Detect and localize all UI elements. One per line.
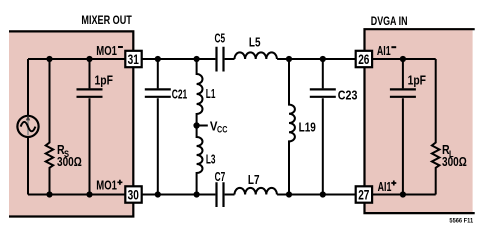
svg-text:L1: L1 bbox=[206, 86, 216, 101]
inductor L7 bbox=[235, 188, 277, 195]
pin label AI1- bbox=[377, 43, 396, 58]
svg-text:L3: L3 bbox=[206, 151, 216, 166]
svg-text:L7: L7 bbox=[248, 172, 260, 187]
svg-text:1pF: 1pF bbox=[408, 73, 426, 88]
inductor L5 bbox=[235, 52, 277, 59]
capacitor 1pF (left) bbox=[77, 59, 103, 195]
svg-text:MO1: MO1 bbox=[96, 177, 117, 192]
svg-text:30: 30 bbox=[128, 188, 139, 204]
svg-text:AI1: AI1 bbox=[377, 43, 391, 58]
node junction dots top rail bbox=[46, 56, 406, 62]
wire left box top rail bbox=[28, 58, 125, 60]
resistor RS bbox=[46, 59, 54, 195]
svg-text:L19: L19 bbox=[299, 120, 316, 135]
svg-text:C7: C7 bbox=[215, 169, 226, 184]
svg-text:31: 31 bbox=[128, 52, 139, 68]
node VCC bbox=[193, 118, 227, 135]
pin 30 bbox=[125, 186, 141, 203]
wire bottom rail (middle) bbox=[142, 194, 356, 196]
svg-text:300Ω: 300Ω bbox=[57, 154, 82, 169]
svg-text:MO1: MO1 bbox=[96, 43, 117, 58]
IC block MIXER OUT (left pink box) bbox=[9, 30, 134, 217]
inductor L19 bbox=[289, 59, 295, 195]
svg-text:1pF: 1pF bbox=[95, 72, 113, 87]
capacitor C7 bbox=[217, 182, 224, 207]
inductor L1 bbox=[197, 59, 203, 126]
svg-text:MIXER OUT: MIXER OUT bbox=[81, 13, 132, 27]
svg-text:300Ω: 300Ω bbox=[442, 154, 467, 169]
svg-text:27: 27 bbox=[358, 188, 369, 204]
pin label AI1+ bbox=[378, 179, 397, 194]
node junction dots bottom rail bbox=[46, 191, 406, 197]
wire left box left vertical bbox=[27, 59, 29, 195]
wire right box bottom rail bbox=[372, 194, 436, 196]
resistor RL bbox=[432, 59, 440, 195]
pin label MO1- bbox=[96, 43, 123, 58]
IC block DVGA IN (right pink box) bbox=[363, 28, 474, 214]
pin 27 bbox=[356, 186, 372, 203]
svg-text:C21: C21 bbox=[172, 86, 188, 101]
label RL bbox=[442, 142, 454, 160]
pin 26 bbox=[356, 51, 372, 68]
capacitor C5 bbox=[217, 47, 224, 72]
svg-text:CC: CC bbox=[217, 124, 227, 135]
svg-text:26: 26 bbox=[358, 52, 369, 68]
inductor L3 bbox=[197, 126, 203, 195]
pin label MO1+ bbox=[96, 177, 122, 192]
svg-text:C5: C5 bbox=[215, 31, 226, 46]
wire top rail (middle) bbox=[142, 58, 356, 60]
svg-text:5566 F11: 5566 F11 bbox=[449, 219, 473, 225]
capacitor C23 bbox=[310, 59, 336, 195]
capacitor 1pF (right) bbox=[390, 59, 416, 195]
pin 31 bbox=[125, 51, 141, 68]
svg-text:L5: L5 bbox=[249, 34, 261, 49]
label RS bbox=[57, 142, 69, 160]
source V1 (AC source) bbox=[17, 115, 38, 137]
svg-text:C23: C23 bbox=[338, 87, 358, 102]
svg-text:DVGA IN: DVGA IN bbox=[371, 14, 408, 28]
wire right box top rail bbox=[372, 58, 436, 60]
wire left box bottom rail bbox=[28, 194, 125, 196]
svg-text:AI1: AI1 bbox=[378, 179, 392, 194]
capacitor C21 bbox=[145, 59, 171, 195]
